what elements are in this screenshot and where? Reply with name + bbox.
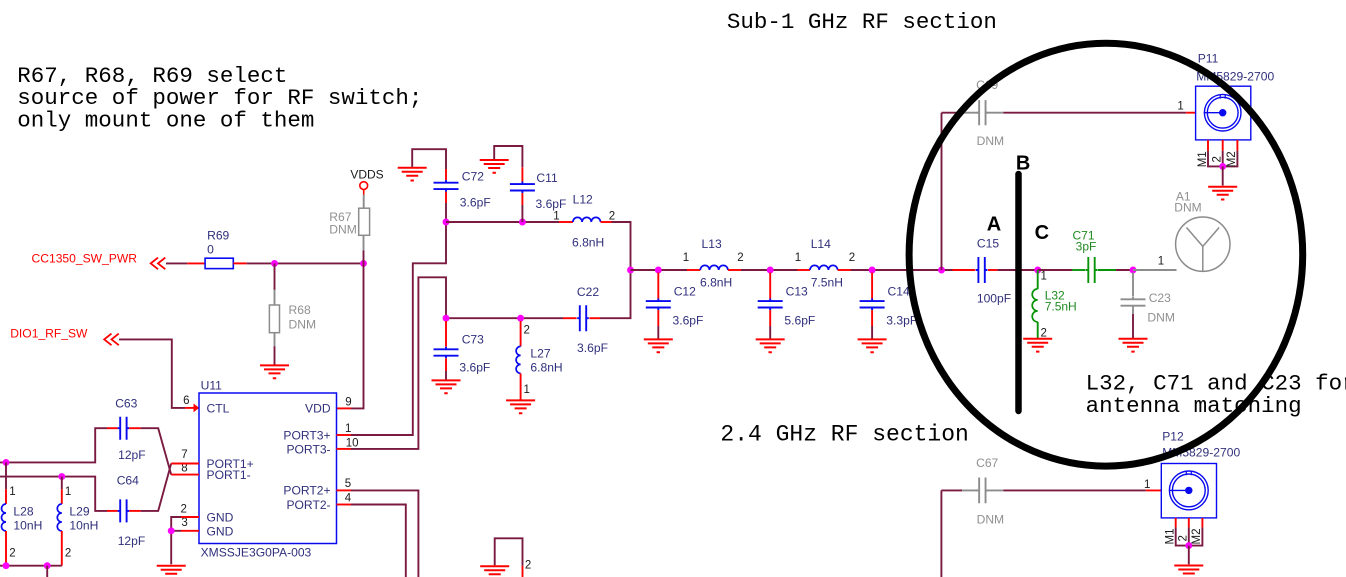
svg-text:XMSSJE3G0PA-003: XMSSJE3G0PA-003 <box>201 546 312 560</box>
wire ground to C72 top <box>412 149 446 169</box>
pin wire C22 left <box>563 317 577 319</box>
svg-text:U11: U11 <box>201 379 223 393</box>
pin wire C67 right (DNM) <box>986 489 1004 491</box>
svg-text:DNM: DNM <box>977 513 1005 527</box>
junction C69 branch <box>938 267 945 274</box>
ground under C12 <box>644 339 673 352</box>
label P11 <box>1198 52 1219 66</box>
pin number 6 <box>183 395 189 407</box>
wire PORT2+ down <box>351 490 418 577</box>
ground under C73 <box>432 380 461 393</box>
wire P12 shield to ground <box>1188 546 1190 565</box>
pin wire C72 top <box>445 169 447 180</box>
svg-text:1: 1 <box>1041 271 1047 283</box>
pin wire L29 pin2 <box>61 531 63 566</box>
value U11 XMSSJE3G0PA-003 <box>201 546 312 560</box>
pin wire P11 2 <box>1222 140 1224 151</box>
input marker CTL pin <box>194 404 200 413</box>
wire P11 shield to ground <box>1222 166 1224 185</box>
pin number P12-1 <box>1144 479 1150 491</box>
wire P12 shield tie <box>1176 527 1203 545</box>
label C71 <box>1072 229 1094 243</box>
svg-text:CC1350_SW_PWR: CC1350_SW_PWR <box>32 251 138 265</box>
capacitor C15 <box>976 257 988 283</box>
wire C12 to ground <box>657 326 659 339</box>
svg-text:C73: C73 <box>462 333 484 347</box>
svg-text:12pF: 12pF <box>118 534 146 548</box>
value C11 3.6pF <box>536 197 567 211</box>
svg-text:L14: L14 <box>811 237 831 251</box>
label C69 DNM <box>977 134 1005 148</box>
label VDDS <box>350 167 383 181</box>
ground under U11 GND <box>157 566 186 577</box>
power symbol VDDS <box>360 182 368 195</box>
ground under L27 <box>506 400 535 413</box>
pin number 1 <box>345 423 351 435</box>
label C13 <box>786 285 808 299</box>
pin wire C63 left <box>107 427 118 429</box>
value L29 10nH <box>69 519 98 533</box>
label A1 DNM <box>1174 201 1201 215</box>
svg-text:3: 3 <box>181 517 187 529</box>
value C71 3pF <box>1076 240 1097 254</box>
pin wire C14 top <box>871 273 873 299</box>
pin number L27-2 <box>524 325 530 337</box>
wire L32 junction to C71 <box>1038 269 1072 271</box>
pin number bottom-2 <box>525 559 531 571</box>
svg-text:2: 2 <box>525 559 531 571</box>
svg-text:C23: C23 <box>1149 291 1171 305</box>
value C64 12pF <box>118 534 146 548</box>
pin number L28-2 <box>9 548 15 560</box>
value P11 MM5829-2700 <box>1196 69 1274 83</box>
pin wire R68 top (DNM) <box>274 290 276 305</box>
pin number 5 <box>345 478 351 490</box>
pin name PORT3- <box>286 442 330 456</box>
svg-text:3.6pF: 3.6pF <box>460 196 491 210</box>
wire C22 to main row <box>600 270 631 318</box>
svg-text:2: 2 <box>9 548 15 560</box>
wire ground to C11 top <box>494 146 522 167</box>
svg-text:DNM: DNM <box>1147 310 1175 324</box>
svg-text:4: 4 <box>345 492 352 504</box>
wire L28 top <box>5 462 7 489</box>
pin number 4 <box>345 492 352 504</box>
svg-text:2: 2 <box>737 252 743 264</box>
svg-text:1: 1 <box>524 384 530 396</box>
pin wire C69 right (DNM) <box>986 112 1004 114</box>
wire VDD pin9 to junction <box>351 263 364 408</box>
svg-text:6.8nH: 6.8nH <box>572 236 604 250</box>
junction C72 row <box>443 219 450 226</box>
svg-text:GND: GND <box>207 511 234 525</box>
label C11 <box>536 171 558 185</box>
pin wire L27 pin1 <box>520 373 522 399</box>
wire C14 to ground <box>871 326 873 339</box>
svg-text:GND: GND <box>207 524 234 538</box>
capacitor C14 <box>860 299 885 311</box>
pin number L13-2 <box>737 252 743 264</box>
pin wire U11 pin3 GND <box>181 530 199 532</box>
capacitor C73 <box>434 347 459 359</box>
value C13 5.6pF <box>784 313 815 327</box>
label R67 <box>329 210 351 224</box>
value L27 6.8nH <box>530 361 562 375</box>
label C73 <box>462 333 484 347</box>
pin name GND b <box>207 524 234 538</box>
wire PORT3- to lower filter row <box>351 277 446 449</box>
pin wire C13 bottom <box>769 310 771 326</box>
pin wire C73 bottom <box>445 358 447 371</box>
pin wire P12 M1 <box>1175 518 1177 528</box>
svg-text:10: 10 <box>346 437 359 449</box>
svg-text:100pF: 100pF <box>977 292 1011 306</box>
svg-text:1: 1 <box>683 252 689 264</box>
svg-text:P12: P12 <box>1162 429 1184 443</box>
capacitor C72 <box>434 180 459 192</box>
capacitor C63 <box>118 417 130 440</box>
junction R67 bottom <box>360 260 367 267</box>
pin wire P12 2 <box>1188 518 1190 528</box>
svg-text:6: 6 <box>183 395 189 407</box>
svg-text:A: A <box>987 214 1001 236</box>
pin wire L14 pin2 <box>838 269 851 271</box>
wire PORT2- down <box>351 505 406 577</box>
value L28 10nH <box>13 519 42 533</box>
svg-text:C22: C22 <box>577 285 599 299</box>
value R69 0 <box>207 243 214 257</box>
wire C71 to C23 junction <box>1116 269 1133 271</box>
pin wire P11 pin1 <box>1186 112 1204 114</box>
pin wire C23 top (DNM) <box>1132 273 1134 297</box>
label C69 <box>976 78 998 92</box>
pin wire C71 left <box>1072 269 1085 271</box>
junction C13 <box>767 267 774 274</box>
pin name VDD <box>305 402 331 416</box>
label L14 <box>811 237 831 251</box>
value C14 3.3pF <box>886 313 917 327</box>
svg-text:M2: M2 <box>1226 151 1238 167</box>
label C23 DNM <box>1147 310 1175 324</box>
capacitor C64 <box>118 499 130 522</box>
wire L29 top <box>61 477 63 490</box>
capacitor C69 (DNM) <box>977 100 989 125</box>
resistor R68 (DNM) <box>269 305 279 333</box>
svg-text:2: 2 <box>1178 535 1190 541</box>
svg-text:C11: C11 <box>536 171 558 185</box>
inductor L12 <box>573 217 601 222</box>
svg-text:DIO1_RF_SW: DIO1_RF_SW <box>10 327 88 341</box>
wire left row to C63 <box>0 428 107 462</box>
value C22 3.6pF <box>577 341 608 355</box>
wire bottom row down <box>46 566 48 577</box>
wire C23 to ground <box>1132 314 1134 338</box>
pin number L27-1 <box>524 384 530 396</box>
pin name PORT3+ <box>283 429 330 443</box>
pin name PORT2- <box>286 498 330 512</box>
pin number L13-1 <box>683 252 689 264</box>
inductor L28 <box>2 504 7 531</box>
label C64 <box>117 474 139 488</box>
pin wire R67 bottom (DNM) <box>363 235 365 250</box>
svg-text:C72: C72 <box>462 170 484 184</box>
pin name PORT1- <box>207 468 251 482</box>
wire junction to R68 <box>274 263 276 290</box>
label C67 <box>976 456 998 470</box>
svg-text:C63: C63 <box>115 397 137 411</box>
capacitor C67 (DNM) <box>977 478 989 504</box>
pin wire C15 right <box>988 269 997 271</box>
pin number L29-1 <box>65 486 71 498</box>
net label DIO1_RF_SW <box>10 327 88 341</box>
pin name PORT2+ <box>283 484 330 498</box>
value C72 3.6pF <box>460 196 491 210</box>
pin label P12 M1 <box>1165 529 1177 545</box>
svg-text:9: 9 <box>345 397 351 409</box>
svg-text:1: 1 <box>65 486 71 498</box>
svg-text:1: 1 <box>553 211 559 223</box>
svg-text:R68: R68 <box>289 303 311 317</box>
svg-text:8: 8 <box>181 463 187 475</box>
junction C11 row <box>519 219 526 226</box>
pin wire U11 pin2 GND <box>181 516 199 518</box>
pin wire L29 pin1 <box>61 489 63 504</box>
svg-text:C67: C67 <box>976 456 998 470</box>
pin number L14-1 <box>795 252 801 264</box>
pin wire C67 left (DNM) <box>962 489 979 491</box>
svg-text:VDD: VDD <box>305 402 331 416</box>
pin wire R68 bottom (DNM) <box>274 333 276 347</box>
ground under L32 <box>1023 339 1052 352</box>
svg-text:PORT3-: PORT3- <box>286 442 330 456</box>
pin number 3 <box>181 517 187 529</box>
wire bottom stub <box>495 538 523 566</box>
ground under P11 <box>1208 187 1237 200</box>
svg-text:DNM: DNM <box>329 223 357 237</box>
pin wire C15 left <box>953 269 976 271</box>
pin wire U11 pin6 CTL <box>185 407 199 409</box>
pin wire L13 pin2 <box>728 269 741 271</box>
pin wire C63 right <box>129 427 140 429</box>
pin wire R69 pin2 <box>233 262 246 264</box>
capacitor C13 <box>758 299 783 311</box>
pin wire P11 M1 <box>1207 140 1209 151</box>
svg-text:1: 1 <box>1177 101 1183 113</box>
wire C69 left <box>942 112 963 114</box>
label L12 <box>573 193 593 207</box>
wire main row C13 <box>741 269 798 271</box>
pin wire C71 right <box>1098 269 1116 271</box>
svg-text:1: 1 <box>1144 479 1150 491</box>
capacitor C23 (DNM) <box>1121 297 1146 309</box>
label P12 <box>1162 429 1184 443</box>
svg-text:2: 2 <box>609 211 615 223</box>
resistor R67 (DNM) <box>359 208 370 235</box>
svg-text:3.6pF: 3.6pF <box>673 313 704 327</box>
pin number L29-2 <box>65 548 71 560</box>
label U11 <box>201 379 223 393</box>
pin number P11-1 <box>1177 101 1183 113</box>
value L32 7.5nH <box>1045 300 1077 314</box>
inductor L29 <box>57 504 61 531</box>
pin wire C11 top <box>521 167 523 181</box>
pin label P11 2 <box>1211 156 1223 162</box>
svg-text:VDDS: VDDS <box>350 167 383 181</box>
svg-text:1: 1 <box>9 486 15 498</box>
capacitor C71 <box>1086 257 1098 283</box>
ground under C23 <box>1119 339 1148 352</box>
label R68 <box>289 303 311 317</box>
svg-text:DNM: DNM <box>289 318 317 332</box>
junction bottom row stub <box>44 562 51 569</box>
svg-text:3.3pF: 3.3pF <box>886 313 917 327</box>
svg-text:P11: P11 <box>1198 52 1219 66</box>
junction C12 <box>655 267 662 274</box>
pin wire C22 right <box>589 317 600 319</box>
svg-text:10nH: 10nH <box>69 519 98 533</box>
svg-text:B: B <box>1016 152 1030 174</box>
svg-text:5.6pF: 5.6pF <box>784 313 815 327</box>
pin number 10 <box>346 437 359 449</box>
wire C64 to pin7 crossover <box>141 464 172 511</box>
svg-text:2: 2 <box>524 325 530 337</box>
section title Sub-1 GHz <box>727 9 997 35</box>
svg-text:DNM: DNM <box>977 134 1005 148</box>
wire C23 junction to antenna (DNM) <box>1133 269 1177 271</box>
pin wire P11 M2 <box>1236 140 1238 151</box>
svg-text:M2: M2 <box>1191 529 1203 545</box>
svg-text:CTL: CTL <box>207 401 230 415</box>
svg-text:3.6pF: 3.6pF <box>459 361 490 375</box>
pin wire C13 top <box>769 273 771 299</box>
svg-text:PORT2+: PORT2+ <box>283 484 330 498</box>
wire CC1350_SW_PWR to R69 <box>166 262 187 264</box>
pin wire bottom stub pin2 <box>522 566 524 577</box>
label L27 <box>530 347 550 361</box>
pin wire P12 M2 <box>1201 518 1203 528</box>
svg-text:DNM: DNM <box>1174 201 1201 215</box>
pin wire U11 pin7 <box>171 463 199 465</box>
svg-text:C12: C12 <box>674 285 696 299</box>
svg-text:7.5nH: 7.5nH <box>811 276 843 290</box>
pin number L28-1 <box>9 486 15 498</box>
label L28 <box>13 504 33 518</box>
svg-text:M1: M1 <box>1165 529 1177 545</box>
pin number A1-1 <box>1158 256 1164 268</box>
wire PORT3+ to upper filter row <box>351 222 446 435</box>
wire DIO1_RF_SW to CTL <box>119 339 185 408</box>
pin number L14-2 <box>849 252 855 264</box>
svg-text:2: 2 <box>180 504 186 516</box>
svg-text:7.5nH: 7.5nH <box>1045 300 1077 314</box>
svg-text:3pF: 3pF <box>1076 240 1097 254</box>
svg-text:5: 5 <box>345 478 351 490</box>
svg-text:2: 2 <box>1211 156 1223 162</box>
annotation letter B <box>1016 152 1030 174</box>
junction L29 top <box>58 473 65 480</box>
wire C69 branch vertical <box>941 113 943 270</box>
pin wire L32 pin2 <box>1037 322 1039 338</box>
junction L28 top <box>3 459 10 466</box>
pin number L32-2 <box>1041 327 1047 339</box>
pin wire L32 pin1 <box>1037 270 1039 289</box>
ground bottom middle <box>480 566 509 577</box>
pin wire C14 bottom <box>871 310 873 326</box>
svg-text:Sub-1 GHz RF section: Sub-1 GHz RF section <box>727 9 997 35</box>
svg-text:3.6pF: 3.6pF <box>577 341 608 355</box>
connector P11 symbol <box>1196 86 1251 140</box>
port chevron CC1350_SW_PWR <box>151 258 166 270</box>
wire upper row <box>446 221 559 223</box>
annotation bar B <box>1015 174 1022 411</box>
junction R68 top <box>271 260 278 267</box>
value L13 6.8nH <box>700 276 732 290</box>
svg-text:PORT2-: PORT2- <box>286 498 330 512</box>
ground under C14 <box>858 339 887 352</box>
pin number 7 <box>181 449 187 461</box>
label C67 DNM <box>977 513 1005 527</box>
pin label P11 M2 <box>1226 151 1238 167</box>
junction main row left <box>627 267 634 274</box>
label C63 <box>115 397 137 411</box>
annotation ellipse <box>909 43 1303 466</box>
pin number L12-2 <box>609 211 615 223</box>
pin label P12 M2 <box>1191 529 1203 545</box>
svg-text:L29: L29 <box>69 504 89 518</box>
value C63 12pF <box>118 448 146 462</box>
wire C15 to L32 junction <box>997 269 1037 271</box>
annotation letter C <box>1035 222 1049 244</box>
label C15 <box>977 236 999 250</box>
wire P11 shield tie <box>1208 151 1237 167</box>
value C12 3.6pF <box>673 313 704 327</box>
pin label P11 M1 <box>1197 151 1209 167</box>
pin number 2 <box>180 504 186 516</box>
port chevron DIO1_RF_SW <box>104 334 119 346</box>
svg-text:L28: L28 <box>13 504 33 518</box>
svg-text:0: 0 <box>207 243 214 257</box>
junction P12 shield <box>1185 542 1192 549</box>
label L29 <box>69 504 89 518</box>
wire R69 to R67/R68 junction <box>247 262 364 264</box>
label C12 <box>674 285 696 299</box>
pin wire U11 pin1 PORT3+ <box>337 434 352 436</box>
wire L12 to main row <box>612 222 631 270</box>
wire main row C14 to C15 <box>851 269 953 271</box>
pin wire U11 pin5 PORT2+ <box>337 489 352 491</box>
svg-text:2: 2 <box>849 252 855 264</box>
inductor L27 <box>516 346 521 373</box>
label C22 <box>577 285 599 299</box>
junction L28 bottom <box>3 562 10 569</box>
antenna A1 (DNM) <box>1176 217 1230 271</box>
wire C73 to ground <box>445 371 447 380</box>
junction C23 <box>1130 267 1137 274</box>
svg-text:6.8nH: 6.8nH <box>530 361 562 375</box>
pin wire U11 pin9 <box>337 407 352 409</box>
pin wire C72 bottom <box>445 192 447 203</box>
svg-text:C13: C13 <box>786 285 808 299</box>
wire C72 to row <box>445 203 447 222</box>
pin wire L28 pin2 <box>5 531 7 566</box>
wire C67 corner down <box>940 490 942 577</box>
ground under C13 <box>756 339 785 352</box>
pin name CTL <box>207 401 230 415</box>
svg-text:2: 2 <box>1041 327 1047 339</box>
wire main row C12 <box>631 269 688 271</box>
wire C13 to ground <box>769 326 771 339</box>
inductor L32 <box>1032 289 1038 322</box>
